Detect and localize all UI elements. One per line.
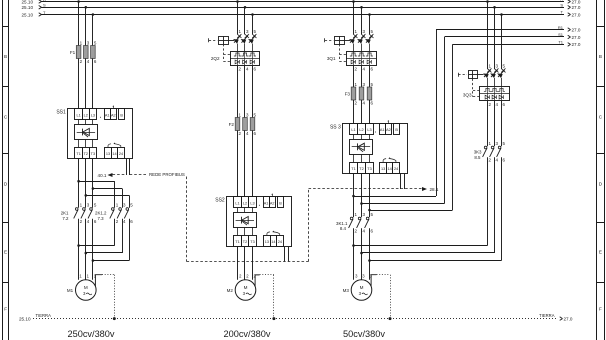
earth bond M3: [371, 275, 391, 321]
svg-text:T1: T1: [235, 240, 239, 244]
svg-text:F2: F2: [229, 122, 235, 127]
wire 3K1.1 to motor M3 with 3K3 rejoin: [354, 228, 370, 280]
contactor 2K1 7.2: [61, 203, 97, 224]
svg-text:T1: T1: [558, 40, 563, 45]
svg-text:28.1: 28.1: [430, 187, 439, 192]
bus line S 25.10: [22, 3, 581, 11]
wire 3K3 output rejoining M3 feeders: [352, 157, 501, 262]
circuit breaker 3Q1: [325, 29, 377, 71]
wire column2 bus to 2Q2: [238, 2, 253, 35]
svg-text:L2: L2: [243, 202, 247, 206]
wire 2K1 output to motor M1 with 2K1.2 rejoin: [77, 219, 129, 280]
node taps column 1 on bus: [77, 0, 94, 16]
wire SS3 aux to profibus: [401, 174, 405, 189]
wire 3Q1 to F3: [354, 65, 370, 87]
svg-text:14: 14: [271, 240, 275, 244]
svg-text:S: S: [560, 3, 563, 8]
fuse F2: [229, 113, 257, 137]
svg-text:B: B: [4, 54, 7, 59]
svg-text:L1: L1: [351, 128, 355, 132]
fuse F3: [345, 82, 374, 106]
svg-text:T3: T3: [367, 167, 371, 171]
svg-text:3K3: 3K3: [474, 150, 482, 155]
svg-text:T3: T3: [91, 152, 95, 156]
node taps column 2 on bus: [236, 0, 254, 16]
wire F2 to SS2: [238, 131, 253, 197]
svg-text:13: 13: [106, 152, 110, 156]
node taps column 3 on bus: [352, 0, 371, 16]
svg-text:L3: L3: [91, 113, 95, 117]
svg-text:M1: M1: [67, 288, 74, 293]
svg-text:F1: F1: [70, 50, 76, 55]
line T1 to 27.0: [453, 40, 581, 48]
bus line T 25.10: [22, 10, 581, 18]
svg-text:M: M: [244, 285, 248, 290]
svg-text:F3: F3: [345, 92, 351, 97]
svg-text:27.0: 27.0: [572, 5, 581, 10]
wire F1 to SS1: [79, 59, 93, 109]
svg-text:27.0: 27.0: [564, 317, 573, 322]
line S1 to 27.0: [445, 32, 581, 40]
fuse F1: [70, 41, 97, 65]
svg-text:14: 14: [387, 167, 391, 171]
svg-text:F: F: [4, 307, 7, 312]
svg-text:24: 24: [278, 240, 282, 244]
wire 2Q2 to F2: [238, 65, 253, 117]
svg-text:A2: A2: [111, 113, 116, 117]
svg-text:24: 24: [394, 167, 398, 171]
wire SS2 to motor M2: [238, 247, 253, 280]
svg-text:L3: L3: [250, 202, 254, 206]
soft starter SS1: [56, 105, 132, 158]
svg-text:7.2: 7.2: [62, 216, 69, 221]
svg-text:50cv/380v: 50cv/380v: [343, 329, 385, 339]
svg-text:B: B: [599, 54, 602, 59]
svg-text:L2: L2: [84, 113, 88, 117]
svg-text:SS2: SS2: [215, 198, 225, 204]
svg-text:A2: A2: [386, 128, 391, 132]
contactor 2K1.2 7.3: [95, 203, 133, 224]
svg-text:13: 13: [381, 167, 385, 171]
dashed REDE PROFIBUS run: [187, 177, 439, 262]
wire branch SS1 output to 2K1.2: [77, 159, 129, 208]
svg-text:SS 3: SS 3: [330, 124, 341, 130]
svg-text:S: S: [43, 3, 46, 8]
svg-text:L3: L3: [367, 128, 371, 132]
svg-text:L1: L1: [235, 202, 239, 206]
svg-text:M2: M2: [227, 288, 234, 293]
svg-text:2Q2: 2Q2: [211, 56, 220, 61]
motor M3: [343, 274, 373, 301]
soft starter SS 3: [330, 120, 408, 174]
frame border right: [597, 0, 605, 340]
svg-text:S1: S1: [558, 32, 564, 37]
svg-text:T1: T1: [351, 167, 355, 171]
wire SS2 aux to profibus: [285, 247, 289, 262]
svg-text:25.10: 25.10: [19, 317, 31, 322]
wire SS3 output to R1 S1 T1: [352, 30, 452, 218]
bus line R 25.10: [22, 0, 581, 4]
svg-text:8.5: 8.5: [474, 155, 481, 160]
svg-text:27.0: 27.0: [572, 27, 581, 32]
soft starter SS2: [215, 193, 291, 246]
svg-text:25.10: 25.10: [22, 0, 34, 4]
svg-text:40.1: 40.1: [98, 173, 107, 178]
svg-text:M: M: [360, 285, 364, 290]
motor M1: [67, 274, 97, 301]
svg-text:R: R: [43, 0, 46, 2]
svg-text:T2: T2: [84, 152, 88, 156]
svg-text:14: 14: [112, 152, 116, 156]
svg-text:25.10: 25.10: [22, 5, 34, 10]
frame border left: [2, 0, 9, 340]
svg-text:B: B: [279, 202, 282, 206]
node taps 3Q3 on bus: [486, 0, 503, 16]
svg-text:8.4: 8.4: [340, 226, 347, 231]
wire SS1 aux to 40.1: [98, 159, 127, 178]
earth bond M2: [255, 275, 275, 321]
svg-text:E: E: [599, 250, 602, 255]
earth bond M1: [95, 275, 115, 321]
svg-text:F: F: [599, 307, 602, 312]
contactor 3K3 8.5: [474, 141, 506, 162]
svg-text:27.0: 27.0: [572, 12, 581, 17]
wire 3Q3 to 3K3: [488, 101, 502, 147]
svg-text:27.0: 27.0: [572, 0, 581, 4]
svg-text:A2: A2: [270, 202, 275, 206]
svg-text:27.0: 27.0: [572, 35, 581, 40]
svg-text:25.10: 25.10: [22, 12, 34, 17]
svg-text:13: 13: [265, 240, 269, 244]
earth bus TIERRA: [19, 313, 573, 322]
svg-text:A1: A1: [264, 202, 269, 206]
motor M2: [227, 274, 257, 301]
svg-text:M3: M3: [343, 288, 350, 293]
svg-text:24: 24: [119, 152, 123, 156]
line R1 to 27.0: [436, 25, 581, 33]
svg-text:SS1: SS1: [56, 110, 66, 116]
circuit breaker 2Q2: [209, 29, 260, 71]
circuit breaker 3Q3: [458, 64, 509, 107]
svg-text:L1: L1: [76, 113, 80, 117]
wire SS1 aux to REDE PROFIBUS: [130, 159, 149, 175]
svg-text:7.3: 7.3: [98, 216, 105, 221]
svg-text:TIERRA: TIERRA: [539, 313, 555, 318]
wire bus to 3Q3: [488, 2, 502, 69]
svg-text:T2: T2: [359, 167, 363, 171]
svg-text:3Q1: 3Q1: [327, 56, 336, 61]
svg-text:A1: A1: [105, 113, 110, 117]
svg-text:T1: T1: [76, 152, 80, 156]
svg-text:E: E: [4, 250, 7, 255]
svg-text:T2: T2: [243, 240, 247, 244]
svg-text:2K1.2: 2K1.2: [95, 211, 107, 216]
svg-text:L2: L2: [359, 128, 363, 132]
svg-text:27.0: 27.0: [572, 42, 581, 47]
svg-text:2K1: 2K1: [61, 211, 69, 216]
contactor 3K1.1 8.4: [336, 212, 373, 233]
wire column3 bus to 3Q1: [354, 2, 370, 35]
wire F3 to SS3: [354, 100, 370, 123]
svg-text:A1: A1: [380, 128, 385, 132]
svg-text:250cv/380v: 250cv/380v: [68, 329, 115, 339]
svg-text:200cv/380v: 200cv/380v: [224, 329, 271, 339]
svg-text:R1: R1: [558, 25, 564, 30]
svg-text:TIERRA: TIERRA: [36, 313, 52, 318]
svg-text:M: M: [84, 285, 88, 290]
wire column1 bus to F1: [79, 2, 93, 46]
svg-text:T3: T3: [250, 240, 254, 244]
svg-text:3K1.1: 3K1.1: [336, 221, 348, 226]
svg-text:REDE PROFIBUS: REDE PROFIBUS: [149, 172, 185, 177]
svg-text:R: R: [560, 0, 563, 2]
svg-text:3Q3: 3Q3: [463, 93, 472, 98]
